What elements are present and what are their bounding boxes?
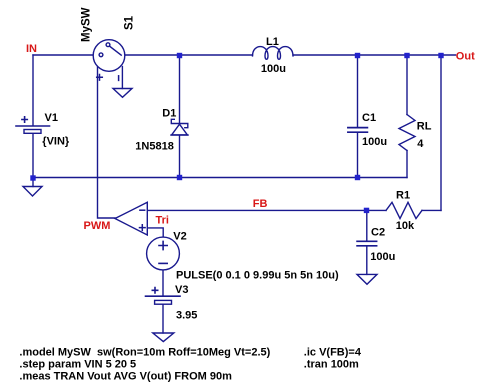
directive .model — [19, 346, 270, 358]
net label Out — [456, 51, 475, 63]
junction nodes — [30, 53, 443, 213]
wire switch + control to PWM — [98, 67, 116, 219]
label V2 value PULSE — [176, 269, 339, 281]
wire IN corner down to V1 — [32, 55, 34, 126]
wire C1 bottom — [357, 133, 359, 178]
wire comparator + input to V2 — [147, 228, 163, 237]
capacitor C2 — [357, 241, 377, 246]
wire D1 bottom — [179, 135, 181, 178]
wire C2 bottom to ground — [366, 246, 368, 274]
svg-text:FB: FB — [253, 198, 268, 210]
comparator - input mark — [140, 209, 145, 211]
node FB — [364, 208, 369, 213]
node D1 bottom — [177, 175, 182, 180]
op-amp comparator PWM — [115, 202, 147, 235]
label RL value 4 — [417, 138, 424, 150]
svg-text:IN: IN — [26, 43, 37, 55]
net label PWM — [84, 220, 111, 232]
svg-text:100u: 100u — [362, 136, 387, 148]
svg-text:.step param VIN 5 20 5: .step param VIN 5 20 5 — [19, 358, 136, 370]
svg-text:C2: C2 — [371, 226, 385, 238]
wire V1 ground stub — [32, 178, 34, 187]
wire switch - control to ground — [121, 67, 123, 89]
svg-text:100u: 100u — [261, 63, 286, 75]
svg-text:4: 4 — [417, 138, 424, 150]
label L1 — [266, 36, 279, 48]
svg-text:10k: 10k — [396, 220, 415, 232]
capacitor C1 — [348, 128, 368, 133]
svg-text:MySW: MySW — [81, 7, 93, 42]
wire IN to switch left pin — [33, 54, 99, 56]
net label IN — [26, 43, 37, 55]
svg-text:V3: V3 — [175, 284, 188, 296]
ground below switch — [113, 89, 132, 98]
node C1 top — [355, 53, 360, 58]
label C1 — [362, 112, 376, 124]
label C2 value 100u — [370, 251, 395, 263]
comparator + input mark — [140, 225, 146, 231]
wire C2 top — [366, 210, 368, 240]
directive .tran — [304, 358, 359, 370]
voltage source V2 — [147, 237, 180, 270]
wire FB net — [147, 209, 386, 211]
wire R1 right lead — [422, 209, 441, 211]
V3 + mark — [152, 288, 157, 293]
net label Tri — [156, 215, 169, 227]
wire L1 to Out — [293, 54, 456, 56]
switch - control mark — [118, 76, 120, 81]
wire switch right to L1 — [125, 54, 253, 56]
battery V1 — [16, 126, 50, 133]
label L1 value 100u — [261, 63, 286, 75]
label V3 — [175, 284, 188, 296]
ground below V1 — [23, 187, 42, 197]
directive .ic — [304, 346, 362, 358]
svg-text:Tri: Tri — [156, 215, 169, 227]
svg-text:3.95: 3.95 — [176, 309, 197, 321]
wire bottom rail — [33, 177, 407, 179]
label RL — [417, 121, 432, 133]
inductor L1 — [253, 47, 294, 60]
svg-text:.meas TRAN Vout AVG V(out) FRO: .meas TRAN Vout AVG V(out) FROM 90m — [19, 371, 232, 383]
label D1 — [162, 107, 176, 119]
directive .meas — [19, 371, 232, 383]
wire C1 top — [357, 55, 359, 127]
label {VIN} — [42, 135, 70, 147]
node C1 bottom — [355, 175, 360, 180]
svg-text:{VIN}: {VIN} — [42, 135, 70, 147]
label V3 value 3.95 — [176, 309, 197, 321]
node RL top — [404, 53, 409, 58]
diode D1 1N5818 — [171, 119, 188, 135]
svg-text:.ic V(FB)=4: .ic V(FB)=4 — [304, 346, 362, 358]
svg-text:PULSE(0 0.1 0 9.99u 5n 5n 10u): PULSE(0 0.1 0 9.99u 5n 5n 10u) — [176, 269, 339, 281]
label MySW — [81, 7, 93, 42]
svg-text:V2: V2 — [173, 230, 186, 242]
svg-text:V1: V1 — [45, 112, 58, 124]
V2 - mark — [159, 262, 167, 264]
label R1 value 10k — [396, 220, 415, 232]
net label FB — [253, 198, 268, 210]
node Out — [438, 53, 443, 58]
svg-text:C1: C1 — [362, 112, 376, 124]
wire V3 bottom to ground — [162, 304, 164, 333]
resistor RL — [399, 115, 415, 151]
svg-text:RL: RL — [417, 121, 432, 133]
svg-text:Out: Out — [456, 51, 475, 63]
switch S1 — [93, 40, 125, 72]
svg-text:L1: L1 — [266, 36, 279, 48]
wire RL top — [406, 55, 408, 115]
svg-text:1N5818: 1N5818 — [135, 141, 174, 153]
label C2 — [371, 226, 385, 238]
battery V3 — [146, 296, 181, 304]
ground below V3 — [153, 333, 174, 342]
wire right rail Out to R1 — [440, 55, 442, 210]
V1 + mark — [22, 117, 27, 122]
label 1N5818 — [135, 141, 174, 153]
directive .step — [19, 358, 136, 370]
V2 + mark — [159, 241, 167, 249]
switch + control mark — [97, 75, 103, 81]
label S1 — [123, 15, 135, 30]
svg-text:S1: S1 — [123, 15, 135, 30]
svg-text:.model MySW sw(Ron=10m Roff=1: .model MySW sw(Ron=10m Roff=10Meg Vt=2.5… — [19, 346, 270, 358]
wire D1 top — [179, 55, 181, 124]
label V1 — [45, 112, 58, 124]
resistor R1 — [386, 202, 422, 218]
svg-text:D1: D1 — [162, 107, 176, 119]
svg-text:.tran 100m: .tran 100m — [304, 358, 359, 370]
label C1 value 100u — [362, 136, 387, 148]
label R1 — [396, 189, 410, 201]
ground below C2 — [357, 274, 377, 284]
wire V1 bottom to ground node — [32, 134, 34, 178]
node V1 bottom — [30, 175, 35, 180]
svg-text:100u: 100u — [370, 251, 395, 263]
wire V2 bottom to V3 — [162, 270, 164, 296]
wire RL bottom — [406, 151, 408, 178]
node D1 top — [177, 53, 182, 58]
svg-text:R1: R1 — [396, 189, 410, 201]
label V2 — [173, 230, 186, 242]
svg-text:PWM: PWM — [84, 220, 111, 232]
